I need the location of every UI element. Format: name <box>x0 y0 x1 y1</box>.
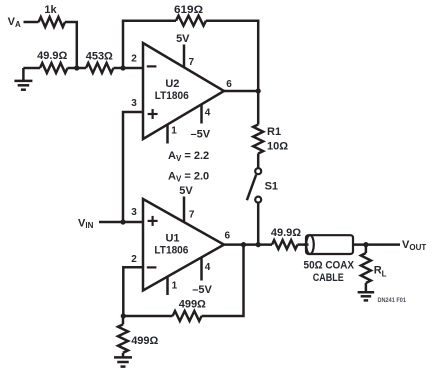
svg-text:5V: 5V <box>176 33 190 45</box>
svg-text:10Ω: 10Ω <box>267 141 288 153</box>
svg-text:50Ω COAX: 50Ω COAX <box>304 260 355 272</box>
svg-text:–5V: –5V <box>192 284 212 296</box>
svg-text:4: 4 <box>205 108 211 119</box>
svg-text:2: 2 <box>131 254 137 265</box>
svg-text:LT1806: LT1806 <box>154 244 188 256</box>
svg-text:6: 6 <box>225 231 231 242</box>
svg-text:AV = 2.0: AV = 2.0 <box>168 171 209 184</box>
svg-text:1k: 1k <box>44 4 57 16</box>
svg-text:6: 6 <box>226 79 232 90</box>
svg-text:1: 1 <box>171 126 177 137</box>
svg-text:3: 3 <box>131 207 137 218</box>
svg-text:U2: U2 <box>165 78 179 90</box>
svg-text:499Ω: 499Ω <box>131 335 158 347</box>
svg-text:DN241 F01: DN241 F01 <box>378 298 407 304</box>
svg-text:3: 3 <box>131 98 137 109</box>
svg-text:5V: 5V <box>179 185 193 197</box>
svg-text:49.9Ω: 49.9Ω <box>271 227 301 239</box>
svg-text:619Ω: 619Ω <box>174 4 203 16</box>
svg-text:2: 2 <box>131 54 137 65</box>
svg-text:LT1806: LT1806 <box>155 90 189 102</box>
svg-text:S1: S1 <box>265 181 278 193</box>
svg-text:U1: U1 <box>165 233 179 245</box>
svg-text:49.9Ω: 49.9Ω <box>37 50 67 62</box>
svg-text:499Ω: 499Ω <box>179 299 206 311</box>
svg-text:7: 7 <box>189 57 195 68</box>
svg-text:R1: R1 <box>267 126 281 138</box>
svg-text:–5V: –5V <box>191 129 211 141</box>
svg-text:CABLE: CABLE <box>313 272 344 284</box>
svg-text:7: 7 <box>189 210 195 221</box>
svg-text:AV = 2.2: AV = 2.2 <box>168 150 209 163</box>
svg-text:4: 4 <box>205 262 211 273</box>
svg-text:453Ω: 453Ω <box>86 51 113 63</box>
svg-text:1: 1 <box>172 281 178 292</box>
